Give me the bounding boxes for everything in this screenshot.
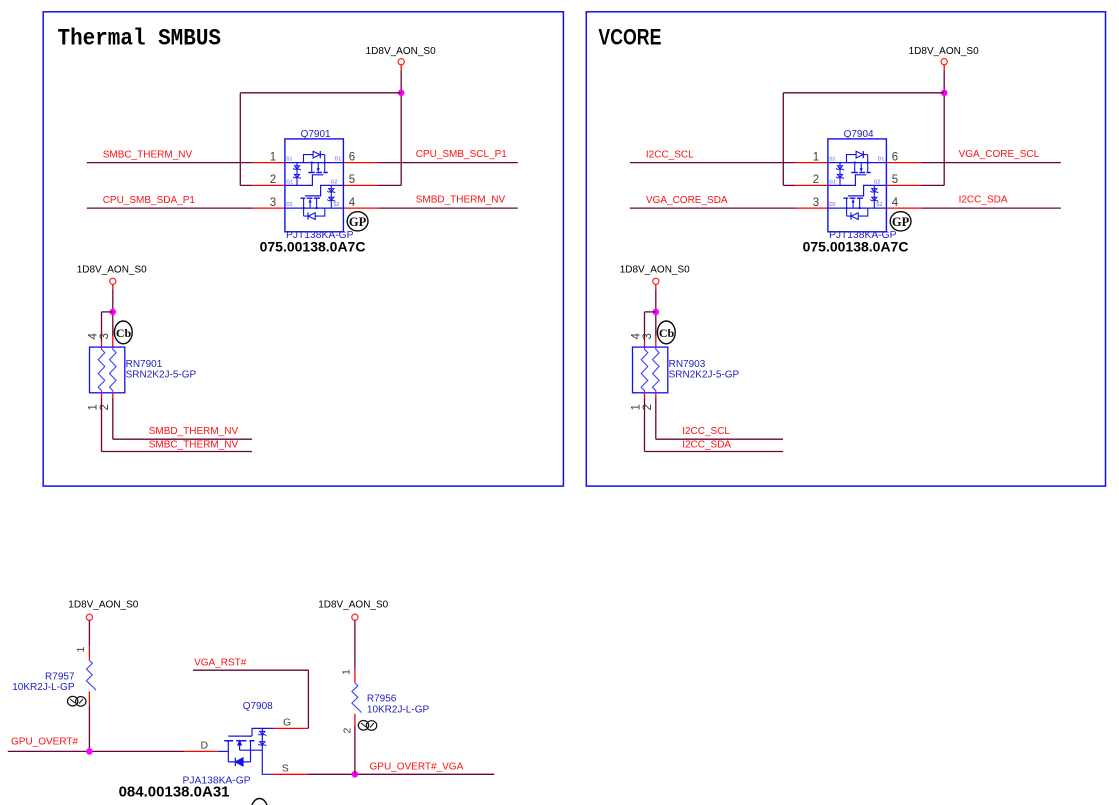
svg-text:R7957: R7957 — [45, 672, 75, 683]
svg-text:5: 5 — [349, 174, 355, 186]
svg-text:10KR2J-L-GP: 10KR2J-L-GP — [367, 704, 430, 715]
svg-text:3: 3 — [99, 333, 111, 339]
svg-text:1: 1 — [270, 151, 276, 163]
wire pin1 vertical — [101, 398, 103, 452]
svg-text:10KR2J-L-GP: 10KR2J-L-GP — [12, 682, 75, 693]
wire pin4 vertical — [101, 312, 103, 341]
Cb marker — [114, 321, 132, 344]
wire G red stub — [274, 727, 309, 729]
zener glyphs Q7908 — [258, 731, 266, 735]
svg-text:Q7908: Q7908 — [243, 701, 273, 712]
power symbol 1D8V_AON_S0 (RN7901) — [77, 265, 197, 452]
transistor Q7908 MOSFET symbol — [224, 728, 274, 774]
wire pin2 red stub — [112, 393, 114, 398]
wire top loop horizontal — [240, 92, 401, 94]
svg-text:D: D — [201, 739, 209, 751]
svg-text:2: 2 — [270, 174, 276, 186]
svg-text:4: 4 — [88, 333, 100, 340]
wire loop left vertical to pin2 — [239, 93, 241, 186]
svg-text:Thermal SMBUS: Thermal SMBUS — [58, 25, 222, 51]
wire D red stub — [184, 750, 218, 752]
node junction magenta — [398, 90, 405, 97]
wire down to junction — [354, 725, 356, 774]
frame box Thermal SMBUS — [43, 12, 563, 486]
wire net SMBC_THERM_NV maroon — [87, 162, 252, 164]
wire pin1 red stub — [101, 393, 103, 398]
svg-text:VGA_RST#: VGA_RST# — [194, 658, 247, 669]
FET1 body stub with arrow — [317, 163, 319, 171]
wire net VGA_RST# horizontal — [193, 669, 308, 671]
GP marker — [347, 212, 368, 231]
svg-text:1D8V_AON_S0: 1D8V_AON_S0 — [68, 600, 138, 611]
svg-text:GP: GP — [349, 215, 367, 229]
FET1 channel bar — [308, 172, 328, 174]
frame box VCORE — [586, 12, 1105, 486]
wire pin3 red stub — [252, 207, 285, 209]
wire net GPU_OVERT# horizontal — [8, 750, 184, 752]
FET1 source stub — [311, 163, 313, 173]
svg-text:GPU_OVERT#_VGA: GPU_OVERT#_VGA — [370, 761, 464, 772]
FET2 drain stub — [303, 198, 305, 216]
svg-text:1D8V_AON_S0: 1D8V_AON_S0 — [366, 46, 436, 57]
wire pin2 maroon — [240, 184, 252, 186]
wire net GPU_OVERT#_VGA maroon — [308, 773, 495, 775]
wire net SMBD_THERM_NV horizontal — [113, 438, 252, 440]
wire R7957 pin2 red stub — [88, 692, 90, 707]
svg-text:G: G — [283, 717, 291, 729]
wire net CPU_SMB_SCL_P1 maroon — [378, 162, 518, 164]
wire pin5 maroon to loop — [921, 184, 944, 186]
wire pin5 red stub — [886, 184, 921, 186]
svg-text:4: 4 — [349, 197, 356, 209]
wire pin3 red stub — [112, 337, 114, 348]
svg-text:CPU_SMB_SCL_P1: CPU_SMB_SCL_P1 — [416, 149, 508, 160]
source link — [240, 749, 263, 751]
node junction magenta — [86, 748, 93, 755]
wire pin3 red stub — [795, 207, 828, 209]
wire down to GPU_OVERT# — [88, 706, 90, 751]
row line pins 3-4 — [285, 207, 344, 209]
svg-text:SMBC_THERM_NV: SMBC_THERM_NV — [103, 149, 193, 160]
wire pin2 vertical — [112, 398, 114, 439]
svg-text:S: S — [282, 763, 289, 775]
svg-text:VGA_CORE_SCL: VGA_CORE_SCL — [959, 149, 1040, 160]
wire pin1 red stub — [795, 162, 828, 164]
svg-text:Cb: Cb — [116, 326, 132, 340]
wire pin2 maroon — [783, 184, 795, 186]
wire pin1 red stub — [252, 162, 285, 164]
svg-text:I2CC_SCL: I2CC_SCL — [646, 149, 694, 160]
svg-text:R7956: R7956 — [367, 694, 397, 705]
resistor R7957 — [86, 659, 95, 690]
gate lead — [228, 728, 273, 736]
wire pin4 red stub — [886, 207, 921, 209]
svg-text:RN7901: RN7901 — [126, 359, 163, 370]
body diode loop — [228, 741, 250, 762]
svg-text:G1: G1 — [286, 180, 293, 186]
svg-text:3: 3 — [270, 197, 276, 209]
wire net CPU_SMB_SDA_P1 maroon — [87, 207, 252, 209]
svg-text:VCORE: VCORE — [598, 25, 661, 50]
wire power vertical — [354, 620, 356, 669]
svg-text:CPU_SMB_SDA_P1: CPU_SMB_SDA_P1 — [103, 195, 196, 206]
GP marker partial — [251, 799, 268, 805]
wire net I2CC_SCL maroon — [630, 162, 795, 164]
wire pin2 red stub — [795, 184, 828, 186]
wire power vertical down to pin5 elbow — [400, 71, 402, 186]
resistor network RN7901 box — [90, 347, 125, 393]
wire net SMBC_THERM_NV horizontal — [102, 451, 252, 453]
wire power vertical down to pin5 elbow — [943, 71, 945, 186]
svg-text:SMBD_THERM_NV: SMBD_THERM_NV — [416, 195, 506, 206]
wire power stub — [112, 284, 114, 290]
FET2 body diode loop — [304, 208, 325, 216]
wire pin5 maroon to loop — [378, 184, 401, 186]
svg-text:S2: S2 — [333, 202, 339, 208]
wire pin2 red stub — [252, 184, 285, 186]
drain stub — [227, 741, 229, 762]
wire top loop horizontal — [783, 92, 944, 94]
row line pins 1-6 — [285, 162, 344, 164]
svg-text:2: 2 — [341, 728, 353, 734]
svg-text:1: 1 — [88, 404, 100, 410]
wire net I2CC_SDA maroon — [921, 207, 1061, 209]
wire loop left vertical to pin2 — [782, 93, 784, 186]
FET2 source stub — [316, 198, 318, 208]
wire R7957 pin1 red stub — [88, 646, 90, 660]
marker oval R7956 — [358, 721, 377, 731]
FET2 zener stack — [330, 185, 332, 208]
wire R7956 pin1 red stub — [354, 669, 356, 682]
svg-text:G2: G2 — [331, 180, 338, 186]
wire pin4 red stub — [343, 207, 378, 209]
zener stack — [261, 728, 263, 750]
row line pin 2 gate lead — [285, 175, 323, 186]
svg-text:1D8V_AON_S0: 1D8V_AON_S0 — [909, 46, 979, 57]
svg-text:Q7904: Q7904 — [844, 129, 874, 140]
resistor element B — [110, 347, 117, 393]
svg-text:075.00138.0A7C: 075.00138.0A7C — [260, 238, 366, 254]
svg-text:1: 1 — [75, 647, 87, 653]
svg-text:SMBC_THERM_NV: SMBC_THERM_NV — [149, 439, 239, 450]
wire net I2CC_SDA horizontal — [645, 451, 784, 453]
node junction magenta — [352, 771, 359, 778]
svg-text:I2CC_SDA: I2CC_SDA — [959, 195, 1008, 206]
svg-text:084.00138.0A31: 084.00138.0A31 — [119, 784, 230, 801]
row line pin5 gate lead — [305, 185, 343, 196]
wire down to junction — [112, 290, 114, 337]
FET1 zener stack — [296, 163, 298, 186]
wire S red stub — [273, 773, 307, 775]
svg-text:SMBD_THERM_NV: SMBD_THERM_NV — [149, 426, 239, 437]
svg-text:D1: D1 — [335, 156, 342, 162]
wire power vertical — [88, 620, 90, 646]
resistor network RN7903 (power + pack) — [620, 265, 740, 452]
FET1 junction dots — [311, 161, 313, 163]
svg-text:VGA_CORE_SDA: VGA_CORE_SDA — [646, 195, 728, 206]
svg-text:S1: S1 — [286, 156, 292, 162]
svg-text:I2CC_SCL: I2CC_SCL — [682, 426, 730, 437]
wire R7956 pin2 red stub — [354, 714, 356, 726]
svg-text:RN7903: RN7903 — [669, 359, 706, 370]
node junction magenta — [110, 309, 117, 316]
FET1 body diode loop — [304, 155, 325, 163]
pack outline — [285, 139, 344, 232]
channel bar — [224, 740, 254, 742]
wire pin5 red stub — [343, 184, 378, 186]
wire VGA_RST# vertical to gate — [307, 670, 309, 728]
FET2 channel bar — [301, 197, 321, 199]
transistor Q7901 dual-MOSFET pack — [260, 139, 368, 255]
wire branch horizontal — [102, 311, 113, 313]
wire pin6 red stub — [343, 162, 378, 164]
svg-text:1D8V_AON_S0: 1D8V_AON_S0 — [77, 265, 147, 276]
svg-text:SRN2K2J-5-GP: SRN2K2J-5-GP — [126, 369, 197, 380]
wire pin4 red stub — [101, 341, 103, 347]
source down lead — [262, 750, 273, 774]
node junction magenta — [941, 90, 948, 97]
svg-text:1: 1 — [341, 669, 353, 675]
wire net I2CC_SCL horizontal — [656, 438, 783, 440]
wire power stub red — [943, 65, 945, 71]
wire net VGA_CORE_SDA maroon — [630, 207, 795, 209]
body diode — [235, 758, 243, 766]
wire power stub red — [400, 65, 402, 71]
wire pin6 red stub — [886, 162, 921, 164]
svg-text:6: 6 — [349, 151, 355, 163]
marker oval R7957 — [68, 696, 87, 706]
FET2 body stub with arrow — [309, 200, 311, 208]
FET2 junction dots — [315, 207, 317, 209]
svg-text:1D8V_AON_S0: 1D8V_AON_S0 — [318, 600, 388, 611]
wire net SMBD_THERM_NV maroon — [378, 207, 518, 209]
FET1 drain stub — [324, 155, 326, 173]
resistor R7956 — [352, 682, 361, 713]
transistor Q7904 dual-MOSFET pack — [803, 139, 911, 255]
power symbol 1D8V_AON_S0 (top of box2) — [630, 46, 1061, 255]
power symbol 1D8V_AON_S0 (top of box1) — [366, 46, 436, 65]
svg-text:GPU_OVERT#: GPU_OVERT# — [11, 736, 78, 747]
body stub arrow — [239, 743, 241, 750]
svg-text:D2: D2 — [286, 202, 293, 208]
resistor element A — [98, 347, 105, 393]
svg-text:I2CC_SDA: I2CC_SDA — [682, 439, 731, 450]
wire D blue lead — [218, 750, 229, 752]
wire net VGA_CORE_SCL maroon — [921, 162, 1061, 164]
